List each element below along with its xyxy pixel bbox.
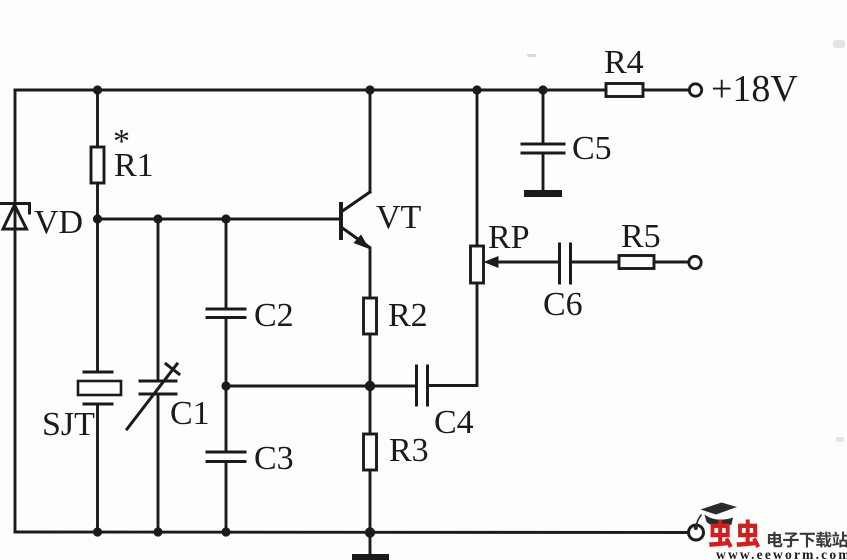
transistor VT	[341, 192, 370, 249]
capacitor C3	[207, 452, 245, 462]
wire C1 bottom	[157, 394, 160, 532]
svg-text:+18V: +18V	[711, 68, 798, 110]
wire C5 top	[542, 90, 545, 144]
crystal SJT	[78, 372, 121, 404]
wire C4 to RP bottom	[428, 283, 478, 386]
wire base rail	[98, 218, 342, 221]
ground C5 (bar)	[524, 190, 562, 197]
wire C3 bottom	[225, 462, 228, 533]
resistor R5	[619, 256, 654, 269]
junction C5/top rail	[538, 85, 547, 94]
junction R2-R3/feedback	[365, 381, 375, 391]
resistor R4	[606, 84, 643, 97]
wire bottom ground rail	[15, 531, 687, 534]
wire R1 bottom	[96, 183, 99, 219]
svg-text:C3: C3	[254, 440, 294, 477]
wire VT emitter	[369, 248, 372, 298]
wire feedback node row	[226, 385, 417, 388]
wire R1 top	[96, 90, 99, 147]
watermark graduation cap	[694, 503, 737, 531]
RP wiper arrow	[497, 261, 559, 264]
junction SJT/ground rail	[93, 527, 102, 536]
wire R3 top	[369, 386, 372, 434]
wire RP top	[476, 90, 479, 246]
svg-text:R4: R4	[604, 44, 644, 81]
RP wiper arrowhead	[484, 256, 499, 268]
svg-text:R3: R3	[389, 432, 429, 469]
svg-text:R1: R1	[114, 147, 154, 184]
terminal +18V	[689, 84, 701, 96]
wire C2 to node	[225, 318, 228, 387]
svg-text:C2: C2	[254, 297, 294, 334]
junction C3/ground rail	[221, 527, 230, 536]
wire R2 bottom	[369, 334, 372, 386]
junction collector/top rail	[365, 85, 374, 94]
wire SJT top	[96, 219, 99, 372]
junction C2/base rail	[221, 214, 230, 223]
watermark 电子下载站	[768, 532, 847, 548]
svg-text:C1: C1	[170, 395, 210, 432]
junction C1/ground rail	[153, 527, 162, 536]
svg-text:VD: VD	[34, 204, 83, 241]
wire ground stub	[369, 532, 372, 554]
wire R3 bottom	[369, 470, 372, 532]
resistor R2	[364, 298, 377, 334]
svg-text:C5: C5	[572, 130, 612, 167]
wire C1 top	[157, 219, 160, 381]
terminal output bottom	[689, 525, 704, 540]
wire top supply rail	[15, 89, 606, 92]
svg-text:RP: RP	[488, 219, 530, 256]
junction R1/top rail	[93, 85, 102, 94]
capacitor C4	[417, 366, 428, 405]
svg-text:R2: R2	[388, 297, 428, 334]
wire C6 to R5	[571, 261, 620, 264]
capacitor C1 (trimmer)	[127, 364, 179, 429]
diode VD	[1, 204, 30, 230]
svg-text:SJT: SJT	[42, 406, 95, 443]
potentiometer RP	[471, 246, 484, 283]
scan smudges (decorative)	[527, 54, 536, 57]
junction C1/base rail	[153, 214, 162, 223]
resistor R3	[364, 434, 377, 470]
terminal R5	[689, 256, 701, 268]
wire C5 bottom	[542, 153, 545, 190]
svg-text:VT: VT	[376, 199, 422, 236]
junction C2-C3/feedback	[221, 381, 230, 390]
wire R4 to +18V terminal	[643, 89, 689, 92]
svg-text:www.eeworm.com: www.eeworm.com	[716, 547, 847, 560]
resistor R1	[91, 147, 104, 183]
wire R5 to terminal	[654, 261, 688, 264]
junction RP/top rail	[472, 85, 481, 94]
svg-text:C4: C4	[434, 404, 474, 441]
junction R3-ground/ground rail	[365, 527, 375, 537]
capacitor C6	[560, 244, 571, 283]
wire node to C3	[225, 386, 228, 452]
svg-text:R5: R5	[621, 218, 661, 255]
wire SJT bottom	[96, 404, 99, 532]
wire VT collector	[369, 90, 372, 192]
wire C2 top	[225, 219, 228, 309]
watermark 虫虫 (red)	[709, 520, 760, 549]
capacitor C5	[522, 144, 564, 153]
svg-text:C6: C6	[543, 286, 583, 323]
junction R1/base rail	[93, 214, 102, 223]
capacitor C2	[207, 309, 245, 318]
ground main (bar)	[352, 554, 389, 560]
wire left branch vertical	[14, 90, 17, 532]
